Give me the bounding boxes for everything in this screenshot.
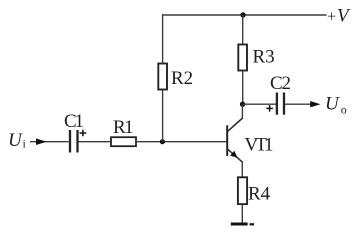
svg-text:C1: C1 (64, 111, 83, 132)
svg-text:+: + (327, 8, 336, 25)
node Uo output label (325, 94, 347, 117)
ground (231, 223, 254, 226)
wire R2 to top rail (162, 14, 164, 63)
node collector junction (240, 102, 245, 107)
resistor R3 (238, 45, 274, 71)
svg-text:U: U (325, 94, 340, 115)
svg-text:i: i (23, 137, 27, 151)
wire input arrow (30, 138, 69, 145)
svg-text:R3: R3 (253, 47, 275, 68)
node base junction (160, 139, 165, 144)
svg-text:VT1: VT1 (245, 134, 274, 155)
wire top rail (162, 14, 327, 16)
svg-text:C2: C2 (270, 73, 290, 94)
resistor R1 (111, 117, 136, 146)
capacitor C1 (64, 111, 86, 153)
svg-text:U: U (8, 130, 23, 151)
svg-text:o: o (341, 103, 347, 117)
svg-text:R1: R1 (113, 117, 133, 138)
resistor R2 (158, 64, 193, 90)
wire node to R2 (162, 90, 164, 142)
node Ui input label (8, 130, 27, 151)
wire collector node to C2 (243, 103, 276, 105)
capacitor C2 (266, 73, 290, 115)
wire R3 to collector node (242, 71, 244, 105)
wire R4 to ground (241, 204, 243, 223)
wire C2 output arrow (285, 101, 321, 107)
transistor VT1 (227, 104, 273, 177)
wire C1 to R1 (79, 141, 111, 143)
wire R1 to base (136, 141, 226, 143)
wire rail to R3 (242, 15, 244, 45)
node rail junction (240, 12, 245, 17)
svg-text:R2: R2 (171, 68, 193, 89)
svg-text:R4: R4 (248, 183, 271, 204)
resistor R4 (238, 177, 271, 204)
svg-text:V: V (337, 6, 351, 27)
node +V supply label (327, 6, 351, 27)
